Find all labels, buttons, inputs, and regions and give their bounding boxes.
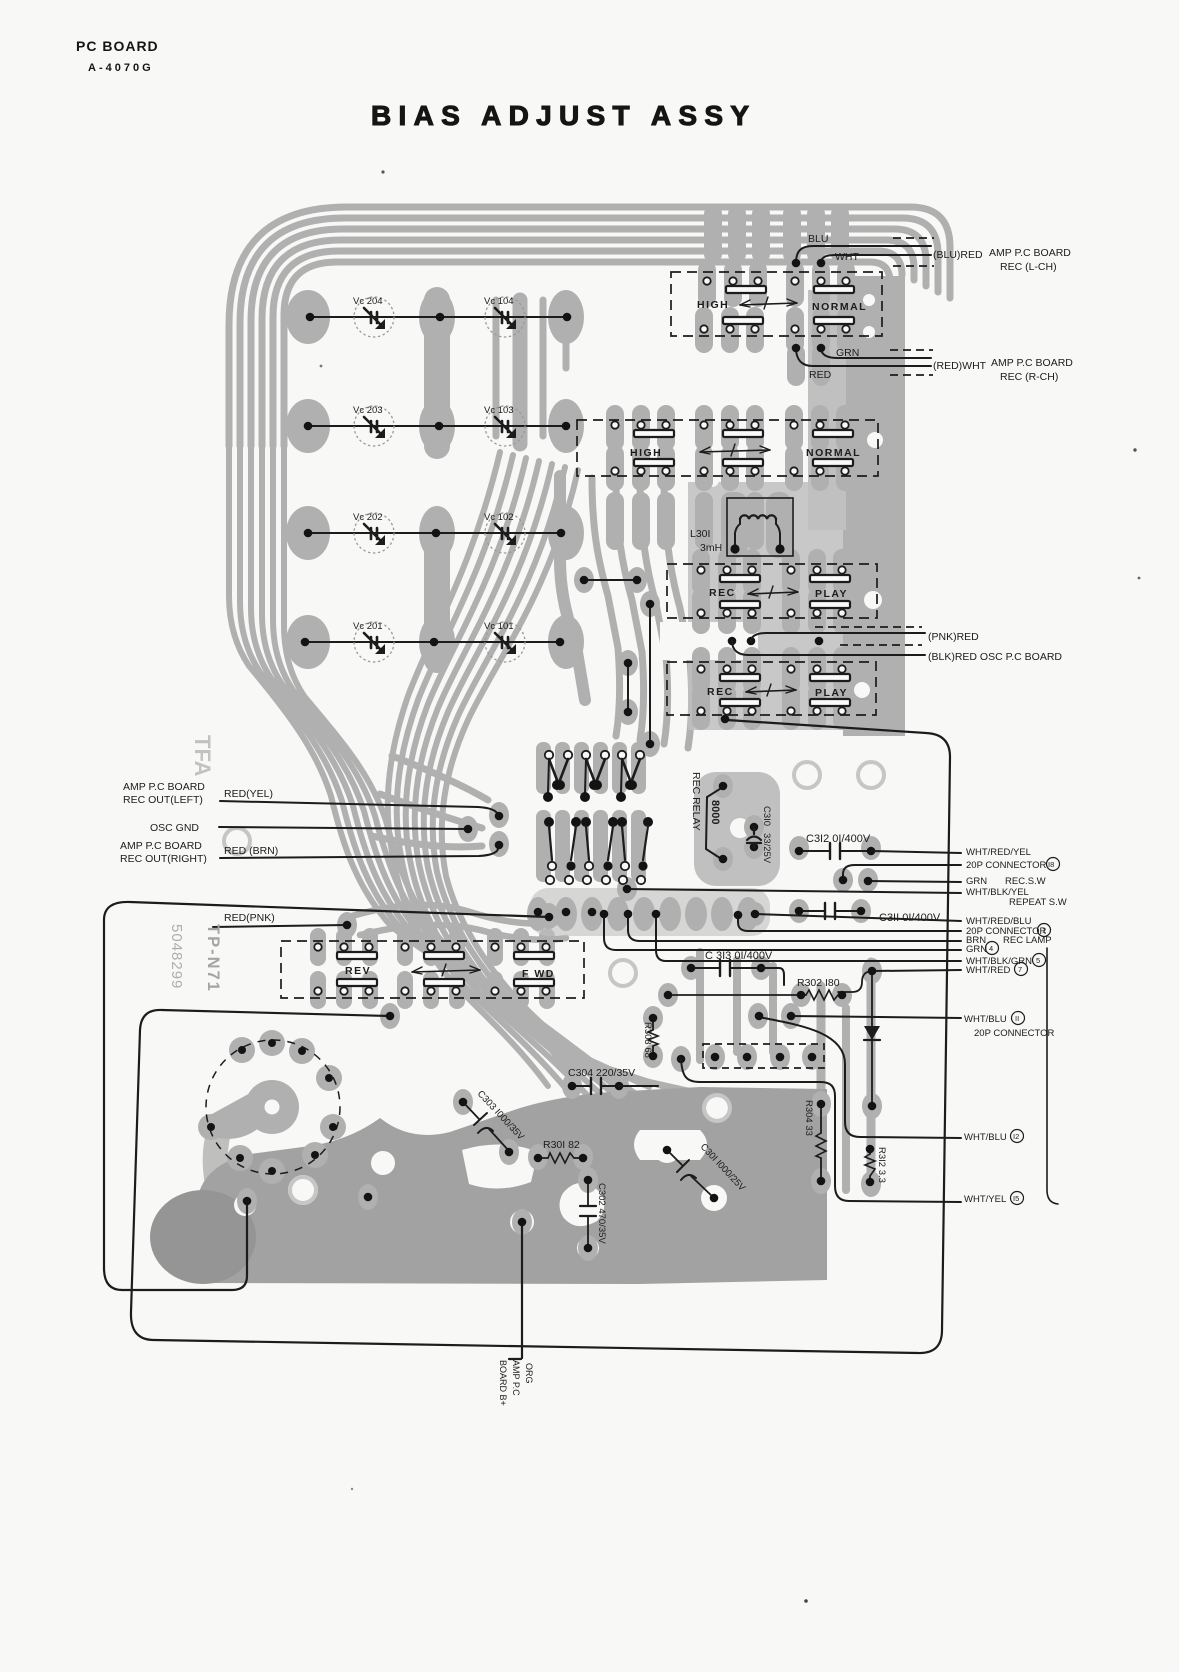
wire BLU	[796, 246, 931, 263]
copper pour: bottom ground plate	[196, 1087, 827, 1284]
wire WHT/RED/YEL	[871, 851, 961, 853]
svg-text:AMP P.C BOARD: AMP P.C BOARD	[989, 247, 1071, 259]
speck marks	[381, 170, 384, 173]
svg-text:(BLK)RED OSC P.C BOARD: (BLK)RED OSC P.C BOARD	[928, 651, 1062, 663]
svg-text:AMP P.C BOARD: AMP P.C BOARD	[123, 781, 205, 793]
svg-text:Vc 104: Vc 104	[484, 296, 514, 307]
svg-text:II: II	[1015, 1014, 1019, 1023]
diode D301	[871, 971, 873, 1106]
wire center vertical	[649, 604, 651, 744]
svg-text:AMP P.C: AMP P.C	[511, 1360, 521, 1396]
svg-text:(BLU)RED: (BLU)RED	[933, 249, 983, 261]
bracket 20P connector group	[1047, 948, 1058, 1204]
trimmer capacitor Vc 204	[354, 297, 394, 337]
svg-text:GRN: GRN	[966, 876, 987, 887]
wire WHT/BLK/YEL	[627, 889, 961, 893]
wire BRN REC LAMP	[628, 917, 961, 941]
svg-text:RED(YEL): RED(YEL)	[224, 788, 273, 800]
inductor L301 3mH	[727, 498, 793, 556]
svg-text:REC: REC	[709, 587, 736, 599]
switch REC/PLAY (lower)	[667, 662, 876, 715]
copper bundle: center fan	[388, 452, 548, 1086]
trimmer capacitor Vc 102	[485, 513, 525, 553]
svg-text:I8: I8	[1048, 860, 1054, 869]
trimmer capacitor Vc 202	[354, 513, 394, 553]
svg-text:ORG: ORG	[524, 1363, 534, 1384]
svg-text:20P CONNECTOR: 20P CONNECTOR	[966, 860, 1047, 871]
svg-text:Vc 201: Vc 201	[353, 621, 383, 632]
svg-text:20P CONNECTOR: 20P CONNECTOR	[974, 1028, 1055, 1039]
svg-text:R30I 82: R30I 82	[543, 1139, 580, 1151]
svg-text:WHT/BLU: WHT/BLU	[964, 1014, 1007, 1025]
svg-text:1: 1	[1042, 926, 1046, 935]
svg-text:Vc 101: Vc 101	[484, 621, 514, 632]
svg-text:(PNK)RED: (PNK)RED	[928, 631, 979, 643]
trimmer capacitor Vc 101	[485, 622, 525, 662]
trimmer capacitor Vc 203	[354, 406, 394, 446]
svg-text:PLAY: PLAY	[815, 687, 848, 699]
svg-text:WHT/YEL: WHT/YEL	[964, 1194, 1006, 1205]
copper trace layer	[150, 205, 950, 1284]
svg-text:BOARD B+: BOARD B+	[498, 1360, 508, 1406]
svg-text:(RED)WHT: (RED)WHT	[933, 360, 987, 372]
svg-text:REC: REC	[707, 686, 734, 698]
svg-text:L30I: L30I	[690, 528, 710, 540]
svg-text:GRN: GRN	[836, 347, 859, 359]
svg-text:33/25V: 33/25V	[761, 833, 772, 864]
svg-text:C3I2 0I/400V: C3I2 0I/400V	[806, 833, 871, 845]
wire WHT/BLU (12)	[759, 1017, 961, 1138]
svg-text:5: 5	[1036, 956, 1040, 965]
copper bundle: top-left corner & top band	[229, 207, 950, 446]
svg-text:REC (R-CH): REC (R-CH)	[1000, 371, 1058, 383]
svg-text:WHT/RED: WHT/RED	[966, 965, 1010, 976]
wire WHT/BLU (11)	[791, 1016, 961, 1018]
svg-text:PLAY: PLAY	[815, 588, 848, 600]
connector footprint (dashed)	[703, 1044, 824, 1068]
copper traces: center verticals	[424, 300, 450, 446]
svg-text:REPEAT S.W: REPEAT S.W	[1009, 897, 1067, 908]
svg-text:AMP P.C BOARD: AMP P.C BOARD	[120, 840, 202, 852]
svg-text:I2: I2	[1013, 1132, 1019, 1141]
wire row Vc 201/Vc 101	[305, 641, 560, 643]
wire short vertical	[627, 663, 629, 712]
wire GRN (4)	[604, 917, 961, 950]
capacitor C302 470/35V	[587, 1180, 589, 1248]
svg-text:AMP P.C BOARD: AMP P.C BOARD	[991, 357, 1073, 369]
wire GRN	[821, 348, 931, 358]
svg-text:OSC GND: OSC GND	[150, 822, 199, 834]
svg-text:F WD: F WD	[522, 968, 555, 980]
capacitor C311 0.1/400V	[799, 910, 861, 912]
svg-text:PC BOARD: PC BOARD	[76, 38, 159, 54]
wire WHT/RED/BLU	[755, 914, 961, 921]
dashed leads REC R-CH	[890, 349, 933, 351]
svg-text:REC (L-CH): REC (L-CH)	[1000, 261, 1057, 273]
wire row Vc 203/Vc 103	[308, 425, 566, 427]
wire ORG AMP PC BOARD B+	[509, 1222, 522, 1359]
svg-text:REC.S.W: REC.S.W	[1005, 876, 1046, 887]
relay contact cluster	[545, 751, 553, 759]
svg-text:Vc 204: Vc 204	[353, 296, 383, 307]
svg-text:I5: I5	[1013, 1194, 1019, 1203]
svg-text:R3I2 3.3: R3I2 3.3	[876, 1147, 887, 1183]
wire WHT/BLK/GRN (5)	[656, 917, 961, 961]
svg-text:4: 4	[989, 944, 993, 953]
wire loop (outer left)	[104, 902, 549, 1290]
trimmer capacitor Vc 104	[485, 297, 525, 337]
svg-text:TFA: TFA	[190, 735, 215, 777]
svg-text:A-4070G: A-4070G	[88, 62, 154, 74]
svg-text:NORMAL: NORMAL	[806, 447, 861, 459]
trimmer capacitor Vc 103	[485, 406, 525, 446]
wire (PNK)RED	[747, 637, 756, 646]
svg-text:BLU: BLU	[808, 233, 828, 245]
wire loop (inner/right)	[131, 720, 950, 1353]
svg-text:GRN: GRN	[966, 944, 987, 955]
svg-text:Vc 203: Vc 203	[353, 405, 383, 416]
copper bundle: left band sweep to bottom	[229, 440, 574, 1078]
svg-text:WHT: WHT	[835, 251, 859, 263]
switch REV/FWD	[281, 941, 584, 998]
svg-text:REC OUT(LEFT): REC OUT(LEFT)	[123, 794, 203, 806]
capacitor C310 33/25V	[750, 823, 759, 832]
svg-text:RED: RED	[809, 369, 832, 381]
svg-text:REC OUT(RIGHT): REC OUT(RIGHT)	[120, 853, 207, 865]
svg-text:TP-N71: TP-N71	[204, 924, 222, 993]
dashed leads REC L-CH	[893, 237, 934, 239]
wire WHT	[821, 255, 931, 263]
svg-text:R302 I80: R302 I80	[797, 977, 840, 989]
wire RED	[796, 348, 931, 366]
svg-text:RED(PNK): RED(PNK)	[224, 912, 275, 924]
svg-text:5048299: 5048299	[168, 924, 185, 989]
svg-text:NORMAL: NORMAL	[812, 301, 867, 313]
svg-text:HIGH: HIGH	[630, 447, 662, 459]
svg-text:REV: REV	[345, 965, 371, 977]
svg-text:Vc 103: Vc 103	[484, 405, 514, 416]
copper pour: motor mount circle	[245, 1080, 299, 1134]
svg-text:REC LAMP: REC LAMP	[1003, 935, 1052, 946]
svg-text:Vc 202: Vc 202	[353, 512, 383, 523]
wire 20P CONNECTOR (8)	[843, 865, 961, 878]
svg-text:C3I0: C3I0	[761, 806, 772, 826]
wire 20P CONNECTOR (1)	[738, 917, 961, 931]
svg-text:C 3I3 0I/400V: C 3I3 0I/400V	[705, 950, 773, 962]
copper pour: right band	[843, 276, 905, 736]
svg-text:3mH: 3mH	[700, 542, 722, 554]
wire GRN REC.S.W	[868, 881, 961, 882]
svg-text:8000: 8000	[709, 800, 721, 824]
wire WHT/RED (7)	[873, 970, 961, 971]
20P connector pad row	[534, 908, 543, 917]
svg-text:WHT/BLU: WHT/BLU	[964, 1132, 1007, 1143]
switch HIGH/NORMAL (second)	[577, 420, 878, 476]
svg-text:Vc 102: Vc 102	[484, 512, 514, 523]
svg-text:R304 33: R304 33	[803, 1100, 814, 1136]
svg-text:RED (BRN): RED (BRN)	[224, 845, 278, 857]
switch REC/PLAY (upper)	[667, 564, 877, 618]
trimmer capacitor Vc 201	[354, 622, 394, 662]
svg-text:HIGH: HIGH	[697, 299, 729, 311]
switch HIGH/NORMAL (top)	[671, 272, 882, 336]
wire row Vc 204/Vc 104	[310, 316, 567, 318]
svg-text:WHT/RED/YEL: WHT/RED/YEL	[966, 847, 1031, 858]
wire (BLK)RED OSC PC BOARD	[728, 637, 737, 646]
svg-text:REC RELAY: REC RELAY	[690, 772, 702, 831]
mounting circle (dashed)	[206, 1040, 340, 1174]
wire short horizontal	[584, 579, 637, 581]
svg-text:7: 7	[1018, 965, 1022, 974]
wire WHT/YEL (15)	[681, 1059, 961, 1202]
wire row Vc 202/Vc 102	[308, 532, 561, 534]
svg-text:C302 470/35V: C302 470/35V	[596, 1183, 607, 1244]
svg-text:BIAS ADJUST ASSY: BIAS ADJUST ASSY	[371, 100, 755, 131]
wire OSC GND	[219, 827, 466, 829]
